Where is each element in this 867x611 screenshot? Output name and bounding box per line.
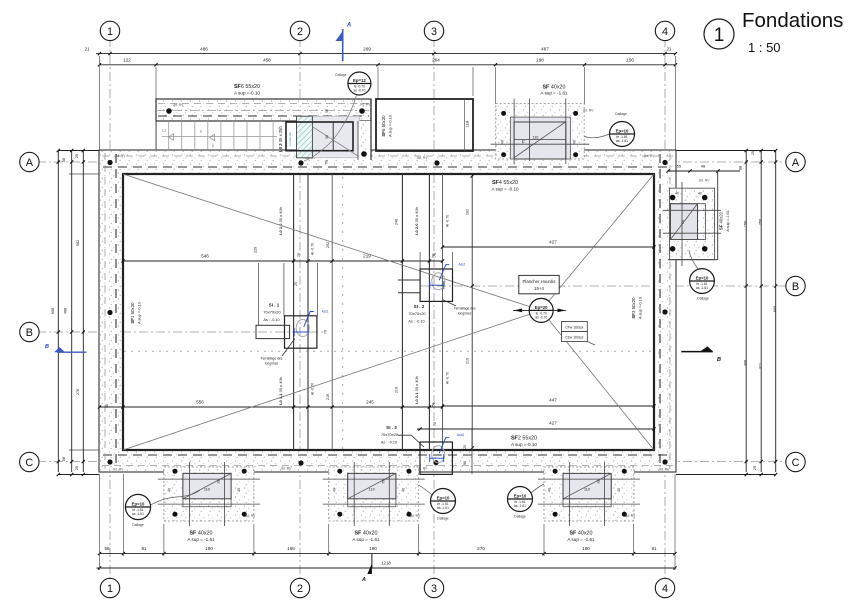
svg-text:40: 40	[402, 488, 406, 492]
svg-text:As : -0.10: As : -0.10	[263, 318, 279, 322]
footing pad SF bottom-middle	[329, 467, 419, 521]
svg-text:4: 4	[662, 26, 668, 38]
svg-text:Dallage: Dallage	[437, 517, 449, 521]
svg-text:427: 427	[549, 240, 557, 245]
svg-text:Dallage: Dallage	[335, 73, 346, 77]
svg-text:SF4 55x20: SF4 55x20	[492, 180, 518, 186]
svg-text:SF3 50x20: SF3 50x20	[631, 297, 636, 319]
svg-text:1: 1	[107, 583, 113, 595]
stair left edge	[155, 121, 157, 150]
svg-text:190: 190	[205, 546, 213, 551]
svg-text:468: 468	[64, 308, 68, 314]
svg-text:1218: 1218	[381, 561, 391, 566]
section marker B left (blue)	[57, 351, 87, 353]
svg-text:Ep=10: Ep=10	[132, 501, 145, 506]
svg-text:Ass2: Ass2	[457, 433, 464, 437]
svg-text:longrines: longrines	[265, 362, 279, 366]
svg-text:2: 2	[297, 583, 303, 595]
svg-text:25: 25	[751, 151, 755, 155]
svg-text:Jkt. RV: Jkt. RV	[115, 154, 127, 158]
svg-text:A sup = -1.61: A sup = -1.61	[540, 91, 568, 96]
svg-text:70: 70	[433, 422, 437, 426]
light dashed lines near outer edges	[102, 155, 673, 157]
slab leader diagonals to corners	[123, 174, 541, 310]
grid line B right segment	[420, 285, 787, 287]
grid line B left segment	[37, 331, 325, 333]
svg-text:A sup = -1.61: A sup = -1.61	[352, 537, 380, 542]
view title circle	[704, 19, 734, 49]
svg-text:229: 229	[254, 247, 258, 253]
svg-text:88: 88	[739, 166, 743, 170]
svg-text:70x70x20: 70x70x20	[263, 310, 281, 315]
grid line C (horizontal dash-dot)	[37, 461, 787, 463]
svg-text:70: 70	[433, 253, 437, 257]
svg-text:A sup = -1.61: A sup = -1.61	[567, 537, 595, 542]
svg-text:487: 487	[541, 47, 549, 52]
grid bubble 1 top	[100, 21, 119, 40]
svg-text:73: 73	[681, 220, 685, 224]
svg-text:8: 8	[212, 144, 215, 149]
interior vertical dim line x=472	[471, 174, 473, 450]
svg-text:A: A	[361, 577, 366, 583]
grid bubble 4 top	[655, 21, 674, 40]
grid bubble 4 bottom	[655, 578, 674, 597]
svg-text:SI . 1: SI . 1	[269, 303, 280, 308]
svg-text:70x70x20: 70x70x20	[408, 311, 426, 316]
svg-text:Ep=20: Ep=20	[535, 305, 548, 310]
svg-text:40: 40	[548, 488, 552, 492]
svg-text:Jkt. RV: Jkt. RV	[410, 514, 422, 518]
svg-text:as -0.70: as -0.70	[353, 88, 365, 92]
svg-text:SF 40x20: SF 40x20	[189, 531, 212, 537]
callout Ep=10 bottom-left	[125, 494, 150, 519]
svg-text:Jkt. RV: Jkt. RV	[417, 156, 429, 160]
callout Ep=10 top-right	[610, 122, 635, 147]
grid line A (horizontal dash-dot)	[37, 161, 787, 163]
svg-text:A sup =-1.61: A sup =-1.61	[726, 210, 730, 231]
svg-text:70x70x20: 70x70x20	[381, 432, 399, 437]
svg-text:A sup = -0.10: A sup = -0.10	[491, 187, 519, 192]
room inner rectangle (wall inner face)	[123, 174, 654, 450]
svg-text:Ep=12: Ep=12	[353, 78, 366, 83]
hidden longrine dotted row	[124, 351, 650, 352]
svg-text:248: 248	[394, 219, 398, 225]
svg-text:AI -0.70: AI -0.70	[446, 372, 450, 384]
svg-text:Jkt. RV: Jkt. RV	[659, 468, 671, 472]
grid line 4 (vertical dash-dot)	[664, 38, 666, 580]
svg-text:Jkt. RV: Jkt. RV	[360, 103, 372, 107]
svg-text:270: 270	[477, 546, 485, 551]
svg-text:48: 48	[701, 164, 706, 169]
section marker B right (black)	[681, 351, 713, 353]
svg-text:L0 1.1 30 x 40h: L0 1.1 30 x 40h	[278, 377, 283, 405]
grid bubble B left	[20, 322, 39, 341]
svg-text:278: 278	[76, 389, 80, 395]
svg-text:219: 219	[394, 387, 398, 393]
svg-text:91: 91	[651, 546, 657, 551]
svg-text:55: 55	[677, 164, 682, 169]
footing pad SF bottom-left	[164, 467, 254, 521]
svg-text:3: 3	[431, 26, 437, 38]
svg-text:Jkt. RV: Jkt. RV	[173, 103, 185, 107]
svg-text:556: 556	[196, 400, 204, 405]
svg-text:245: 245	[366, 400, 374, 405]
svg-text:698: 698	[51, 308, 55, 314]
svg-text:75: 75	[382, 480, 386, 484]
svg-text:25: 25	[75, 466, 79, 470]
room edge extension lines to left chains	[69, 173, 99, 175]
svg-text:58: 58	[104, 546, 110, 551]
svg-text:70: 70	[297, 253, 301, 257]
svg-text:269: 269	[363, 47, 371, 52]
label Plancher Hourdis	[519, 275, 559, 293]
extension lines from top dims	[155, 67, 157, 99]
svg-text:Dallage: Dallage	[514, 515, 526, 519]
svg-text:As : -0.10: As : -0.10	[381, 441, 397, 445]
CP/CE boxes	[562, 322, 588, 332]
svg-text:91: 91	[141, 546, 147, 551]
stair landing gray slab	[297, 116, 360, 158]
grid bubble A right	[786, 152, 805, 171]
bottom overall dimension line 1218	[97, 567, 677, 569]
svg-text:Fondations: Fondations	[742, 9, 843, 32]
svg-text:A sup =-0.10: A sup =-0.10	[511, 442, 537, 447]
svg-text:292: 292	[466, 209, 470, 215]
SI.1 extension lines	[258, 263, 260, 325]
svg-text:CEw 160spr: CEw 160spr	[565, 335, 584, 339]
svg-text:AI -0.70: AI -0.70	[311, 383, 315, 395]
grid bubble 2 bottom	[290, 578, 309, 597]
grid bubble 3 top	[424, 21, 443, 40]
svg-text:40: 40	[237, 488, 241, 492]
svg-text:546: 546	[201, 254, 209, 259]
hidden wall dashed lines in bands	[103, 166, 672, 168]
footing pad SF right wing	[670, 188, 715, 260]
svg-text:15+4: 15+4	[534, 286, 544, 291]
svg-text:SF5 50x20: SF5 50x20	[381, 115, 386, 137]
svg-text:40: 40	[573, 140, 577, 144]
svg-text:40: 40	[675, 192, 679, 196]
svg-text:2: 2	[297, 26, 303, 38]
longrine L0 1.0 / 1.1 at grid 2	[293, 174, 295, 450]
svg-text:110: 110	[532, 136, 538, 140]
svg-text:SF 40x20: SF 40x20	[569, 531, 592, 537]
section marker A bottom	[371, 554, 373, 568]
svg-text:58: 58	[325, 109, 329, 113]
svg-text:Jkt. RV: Jkt. RV	[644, 154, 656, 158]
callout circle Ep=12	[348, 72, 371, 95]
footing pad SF bottom-right	[544, 467, 634, 521]
svg-text:SF1 50x20: SF1 50x20	[130, 302, 135, 324]
grid bubble 2 top	[290, 21, 309, 40]
svg-text:Jkt. RV: Jkt. RV	[281, 467, 293, 471]
stair hatched pocket L0 3	[297, 116, 313, 158]
svg-text:75: 75	[597, 480, 601, 484]
right wing boundary + dims	[668, 170, 740, 172]
svg-text:21: 21	[84, 47, 90, 52]
svg-text:190: 190	[582, 546, 590, 551]
svg-text:as -1.61: as -1.61	[132, 512, 144, 516]
svg-text:110: 110	[584, 488, 590, 492]
svg-text:C: C	[792, 457, 800, 469]
bottom dimension line	[99, 553, 676, 555]
svg-text:Ass1: Ass1	[458, 263, 465, 267]
svg-text:40: 40	[617, 488, 621, 492]
svg-text:70: 70	[323, 330, 327, 334]
svg-text:B: B	[792, 281, 799, 293]
svg-text:SF6 55x20: SF6 55x20	[234, 84, 260, 90]
svg-text:58: 58	[432, 403, 436, 407]
wall column bullets	[107, 160, 112, 165]
svg-text:Ferraillage des: Ferraillage des	[454, 307, 476, 311]
svg-text:Jkt. RV: Jkt. RV	[625, 514, 637, 518]
svg-text:58: 58	[325, 135, 329, 139]
footing pad SF top-right	[496, 104, 585, 159]
svg-text:as -1.61: as -1.61	[514, 504, 526, 508]
svg-text:A sup =-0.10: A sup =-0.10	[388, 114, 393, 137]
svg-text:Ep=10: Ep=10	[514, 493, 527, 498]
svg-text:110: 110	[369, 488, 375, 492]
svg-text:40: 40	[698, 192, 702, 196]
svg-text:21: 21	[666, 47, 672, 52]
svg-text:B: B	[26, 327, 33, 339]
svg-text:as -1.61: as -1.61	[696, 286, 708, 290]
svg-text:Dallage: Dallage	[615, 112, 627, 116]
svg-text:458: 458	[263, 58, 271, 63]
svg-text:Jkt. RV: Jkt. RV	[113, 468, 125, 472]
svg-text:58: 58	[105, 404, 109, 408]
isolated footing SI.2	[420, 269, 452, 301]
svg-text:A sup =-0.10: A sup =-0.10	[234, 91, 260, 96]
svg-text:Dallage: Dallage	[132, 523, 144, 527]
SF5 vertical strip	[358, 121, 371, 160]
svg-text:L0 1.0 30 x 40h: L0 1.0 30 x 40h	[278, 207, 283, 235]
svg-text:40: 40	[168, 488, 172, 492]
svg-text:AI -0.70: AI -0.70	[311, 243, 315, 255]
svg-text:SF 40x20: SF 40x20	[719, 211, 724, 230]
interior dimension row lower	[99, 406, 442, 408]
svg-text:a embeder: a embeder	[288, 132, 292, 146]
grid line 3 (vertical dash-dot)	[433, 38, 435, 580]
grid bubble C left	[20, 452, 39, 471]
callout Ep=10 bottom-middle	[431, 489, 456, 514]
svg-text:Ass1: Ass1	[321, 310, 328, 314]
svg-text:A: A	[792, 157, 800, 169]
callout Ep=10 right wing	[690, 269, 715, 294]
svg-text:A: A	[346, 23, 351, 29]
strip footing band fill (speckle)	[99, 150, 676, 174]
svg-text:58: 58	[62, 158, 66, 162]
svg-text:as -1.61: as -1.61	[616, 139, 628, 143]
svg-text:447: 447	[549, 398, 557, 403]
svg-text:110: 110	[204, 488, 210, 492]
footing outer rectangle	[99, 150, 676, 472]
svg-text:SI . 2: SI . 2	[414, 304, 425, 309]
isolated footing SI.3	[420, 442, 452, 474]
staircase treads	[156, 121, 274, 150]
svg-text:25: 25	[753, 466, 757, 470]
svg-text:58: 58	[325, 160, 329, 164]
svg-text:58: 58	[62, 457, 66, 461]
svg-text:Ep=10: Ep=10	[616, 128, 629, 133]
svg-text:A sup =-0.10: A sup =-0.10	[137, 301, 142, 324]
svg-text:L0 2.1 30 x 40h: L0 2.1 30 x 40h	[414, 376, 419, 404]
svg-text:158: 158	[744, 221, 748, 227]
svg-text:198: 198	[536, 58, 544, 63]
landing thick box	[286, 122, 353, 151]
svg-text:190: 190	[369, 546, 377, 551]
svg-text:Ep=10: Ep=10	[437, 495, 450, 500]
extension lines pads to bottom dims	[163, 524, 165, 556]
interior dimension row upper	[123, 260, 442, 262]
svg-text:25: 25	[294, 282, 298, 286]
section marker A top (blue)	[342, 29, 344, 61]
svg-text:SI . 3: SI . 3	[386, 425, 397, 430]
top dimension line 2	[99, 64, 676, 66]
svg-text:1: 1	[107, 26, 113, 38]
wing right rectangle SF5	[376, 99, 473, 151]
grid bubble 1 bottom	[100, 578, 119, 597]
SF6 strip footing band (top wing)	[156, 99, 371, 121]
svg-text:118: 118	[465, 120, 470, 127]
svg-text:B: B	[45, 344, 49, 350]
svg-text:25: 25	[75, 154, 79, 158]
callout Ep=10 bottom-right2	[508, 487, 533, 512]
svg-text:Jkt. RV: Jkt. RV	[699, 179, 711, 183]
svg-text:L0 2.0 30 x 40h: L0 2.0 30 x 40h	[414, 207, 419, 235]
svg-text:156: 156	[626, 58, 634, 63]
svg-text:AI -0.70: AI -0.70	[446, 215, 450, 227]
callout circle Ep=20	[513, 309, 566, 311]
svg-text:A sup = -1.61: A sup = -1.61	[187, 537, 215, 542]
svg-text:582: 582	[76, 240, 80, 246]
grid line 2 (vertical dash-dot)	[299, 38, 301, 580]
svg-text:256: 256	[759, 219, 763, 225]
svg-text:166: 166	[287, 546, 295, 551]
svg-text:L0 3 35 x 25h: L0 3 35 x 25h	[278, 126, 283, 152]
svg-text:699: 699	[773, 306, 777, 312]
svg-text:Ep=10: Ep=10	[696, 275, 709, 280]
svg-text:122: 122	[123, 58, 131, 63]
svg-text:75: 75	[217, 480, 221, 484]
top dimension line 1	[96, 53, 676, 55]
svg-text:1 : 50: 1 : 50	[748, 40, 781, 55]
svg-text:longrines: longrines	[458, 312, 472, 316]
svg-text:219: 219	[326, 394, 330, 400]
left dimension chains	[57, 150, 59, 472]
svg-text:As : -0.10: As : -0.10	[408, 320, 424, 324]
svg-text:292: 292	[326, 242, 330, 248]
svg-text:371: 371	[759, 363, 763, 369]
svg-text:427: 427	[549, 421, 557, 426]
svg-text:264: 264	[432, 58, 440, 63]
svg-text:4: 4	[662, 583, 668, 595]
svg-text:C: C	[25, 457, 33, 469]
svg-text:12: 12	[161, 128, 167, 133]
svg-text:75: 75	[521, 140, 525, 144]
svg-text:A sup =-0.10: A sup =-0.10	[638, 296, 643, 319]
svg-text:SF 40x20: SF 40x20	[354, 531, 377, 537]
svg-text:Dallage: Dallage	[697, 297, 709, 301]
longrine L0 2.0 / 2.1 at grid 3	[401, 174, 403, 450]
svg-text:Jkt. RV: Jkt. RV	[245, 514, 257, 518]
svg-text:25: 25	[463, 445, 467, 449]
svg-text:486: 486	[200, 47, 208, 52]
svg-text:40: 40	[332, 488, 336, 492]
right dimension chains	[745, 150, 747, 472]
svg-text:219: 219	[466, 358, 470, 364]
svg-text:3: 3	[431, 583, 437, 595]
grid line 1 (vertical dash-dot)	[109, 38, 111, 580]
svg-text:as -1.61: as -1.61	[437, 506, 449, 510]
grid bubble 3 bottom	[424, 578, 443, 597]
svg-text:Ferraillage des: Ferraillage des	[261, 357, 283, 361]
svg-text:as -0.70: as -0.70	[535, 315, 547, 319]
grid bubble A left	[20, 152, 39, 171]
svg-text:CPw 160spr: CPw 160spr	[565, 325, 584, 329]
SI.2 extension lines	[419, 252, 421, 269]
svg-text:Jkt. RV: Jkt. RV	[583, 109, 595, 113]
svg-text:B: B	[717, 357, 721, 363]
svg-text:SF2 55x20: SF2 55x20	[511, 436, 537, 442]
svg-text:58: 58	[463, 461, 467, 465]
svg-text:468: 468	[744, 360, 748, 366]
svg-text:40: 40	[501, 140, 505, 144]
svg-text:A: A	[26, 157, 34, 169]
isolated footing SI.1	[285, 316, 317, 348]
grid bubble B right	[786, 276, 805, 295]
svg-text:1: 1	[714, 25, 725, 46]
grid bubble C right	[786, 452, 805, 471]
svg-text:Plancher Hourdis: Plancher Hourdis	[523, 279, 556, 284]
svg-text:9: 9	[200, 129, 203, 134]
